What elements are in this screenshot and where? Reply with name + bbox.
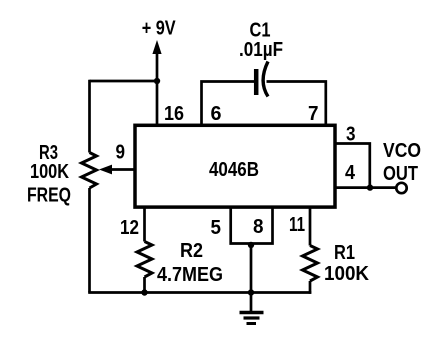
wire: bottom rail — [88, 291, 311, 294]
svg-text:4.7MEG: 4.7MEG — [157, 264, 223, 286]
wire: pin 9 wiper arrow — [99, 165, 134, 175]
pin number 3 — [346, 124, 356, 146]
svg-text:11: 11 — [289, 214, 305, 236]
node: ground rail junction — [248, 289, 254, 295]
label FREQ — [27, 185, 71, 207]
svg-text:FREQ: FREQ — [27, 185, 71, 207]
wire: 5-8 junction to bottom rail — [250, 245, 253, 293]
capacitor C1 — [256, 62, 268, 97]
power +9V symbol — [152, 40, 161, 81]
pin number 12 — [120, 217, 139, 239]
pin number 11 — [289, 214, 305, 236]
label VCO — [383, 140, 421, 162]
label C1 — [250, 20, 271, 42]
terminal: VCO OUT — [396, 183, 406, 193]
wire: pin 4 to output terminal — [336, 186, 397, 189]
label +9V — [142, 18, 177, 40]
label 4.7MEG — [157, 264, 223, 286]
svg-text:R2: R2 — [180, 240, 203, 262]
wire: supply junction to left rail — [90, 80, 158, 83]
node: supply junction — [154, 78, 160, 84]
wire: left rail upper (to R3 top) — [88, 80, 91, 153]
node: pins 3-4 junction — [367, 184, 373, 190]
label 4046B — [209, 159, 259, 181]
wire: R1 bottom to rail — [309, 281, 312, 294]
wire: pin 11 — [309, 207, 312, 246]
label R3 — [39, 142, 58, 164]
wire: R2 bottom to rail — [143, 277, 146, 293]
pin number 5 — [211, 217, 222, 239]
svg-text:4: 4 — [345, 162, 356, 184]
wire: pin 3 — [336, 144, 370, 188]
svg-text:+ 9V: + 9V — [142, 18, 177, 40]
svg-text:.01µF: .01µF — [239, 39, 283, 61]
label R1 — [334, 242, 355, 264]
svg-text:8: 8 — [253, 216, 264, 238]
wire: capacitor to pin 7 — [267, 82, 326, 126]
pin number 7 — [308, 103, 319, 125]
svg-text:R1: R1 — [334, 242, 355, 264]
svg-text:3: 3 — [346, 124, 356, 146]
svg-text:12: 12 — [120, 217, 139, 239]
pin number 8 — [253, 216, 264, 238]
wire: pin 16 — [156, 81, 159, 125]
resistor R1 zigzag — [303, 246, 318, 282]
potentiometer R3 zigzag — [82, 153, 97, 189]
pin number 9 — [116, 142, 126, 164]
ground — [240, 293, 264, 324]
wire: pin 12 — [143, 207, 146, 242]
pin number 16 — [164, 103, 184, 125]
label R2 — [180, 240, 203, 262]
label 100K (R1) — [324, 263, 370, 285]
svg-text:100K: 100K — [324, 263, 370, 285]
svg-text:4046B: 4046B — [209, 159, 259, 181]
pin number 6 — [211, 103, 222, 125]
label 100K (R3) — [30, 161, 69, 183]
svg-text:7: 7 — [308, 103, 319, 125]
wire: pin 6 to capacitor — [202, 82, 255, 126]
pin number 4 — [345, 162, 356, 184]
node: R2 bottom rail junction — [141, 289, 147, 295]
node: pins 5-8 junction — [248, 242, 254, 248]
svg-text:OUT: OUT — [383, 163, 418, 185]
IC U1 4046B body — [135, 125, 335, 207]
svg-text:6: 6 — [211, 103, 222, 125]
svg-text:9: 9 — [116, 142, 126, 164]
svg-text:16: 16 — [164, 103, 184, 125]
wire: pins 5 and 8 U link — [231, 207, 273, 244]
label OUT — [383, 163, 418, 185]
label .01uF — [239, 39, 283, 61]
svg-text:5: 5 — [211, 217, 222, 239]
wire: left rail lower (R3 bottom to bottom rail) — [88, 188, 91, 293]
svg-text:100K: 100K — [30, 161, 69, 183]
svg-text:VCO: VCO — [383, 140, 421, 162]
resistor R2 zigzag — [137, 242, 152, 278]
